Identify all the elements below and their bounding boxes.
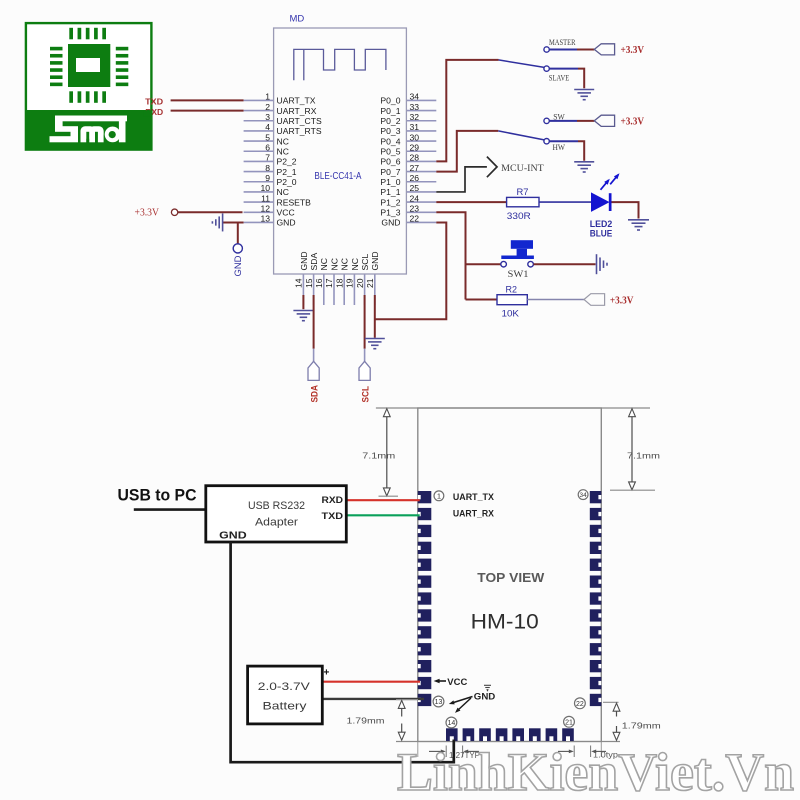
svg-text:+3.3V: +3.3V xyxy=(621,45,645,56)
svg-text:P0_3: P0_3 xyxy=(380,126,400,136)
svg-text:21: 21 xyxy=(565,719,573,726)
svg-text:SCL: SCL xyxy=(360,254,370,271)
svg-text:USB RS232: USB RS232 xyxy=(248,500,305,512)
svg-text:P1_1: P1_1 xyxy=(380,187,400,197)
svg-text:15: 15 xyxy=(304,278,314,288)
svg-text:NC: NC xyxy=(277,146,289,156)
svg-text:SLAVE: SLAVE xyxy=(549,73,570,83)
svg-text:GND: GND xyxy=(219,531,247,542)
svg-text:22: 22 xyxy=(576,701,584,708)
svg-text:12: 12 xyxy=(260,203,270,213)
svg-text:33: 33 xyxy=(410,102,420,112)
svg-text:SW1: SW1 xyxy=(508,269,529,279)
svg-text:RXD: RXD xyxy=(322,495,344,506)
svg-text:3: 3 xyxy=(265,112,270,122)
svg-text:HW: HW xyxy=(553,142,566,152)
svg-text:TXD: TXD xyxy=(322,511,344,522)
svg-text:NC: NC xyxy=(329,258,339,270)
svg-text:Battery: Battery xyxy=(263,701,307,713)
svg-text:HM-10: HM-10 xyxy=(471,610,539,634)
svg-text:LinhKienViet.Vn: LinhKienViet.Vn xyxy=(397,742,794,800)
svg-text:SDA: SDA xyxy=(309,253,319,271)
svg-text:BLE-CC41-A: BLE-CC41-A xyxy=(314,171,361,182)
svg-text:VCC: VCC xyxy=(447,677,467,688)
svg-text:330R: 330R xyxy=(507,211,531,221)
svg-text:P0_2: P0_2 xyxy=(380,116,400,126)
svg-text:SDA: SDA xyxy=(309,385,320,403)
svg-text:SW: SW xyxy=(553,111,565,121)
svg-text:1: 1 xyxy=(437,492,441,501)
svg-text:MCU-INT: MCU-INT xyxy=(501,163,544,174)
svg-text:7.1mm: 7.1mm xyxy=(362,451,395,461)
svg-text:TXD: TXD xyxy=(145,97,163,107)
svg-text:13: 13 xyxy=(435,699,443,706)
svg-text:30: 30 xyxy=(410,132,420,142)
svg-text:20: 20 xyxy=(355,278,365,288)
svg-text:P1_0: P1_0 xyxy=(380,177,400,187)
svg-text:19: 19 xyxy=(345,278,355,288)
svg-text:MASTER: MASTER xyxy=(549,37,576,47)
svg-text:GND: GND xyxy=(370,251,380,270)
svg-text:UART_RX: UART_RX xyxy=(277,106,317,116)
svg-text:P2_1: P2_1 xyxy=(277,167,297,177)
svg-text:27: 27 xyxy=(410,163,420,173)
svg-text:RESETB: RESETB xyxy=(277,197,312,207)
svg-text:34: 34 xyxy=(580,492,588,499)
svg-text:UART_RX: UART_RX xyxy=(453,509,495,520)
svg-text:18: 18 xyxy=(334,278,344,288)
svg-text:23: 23 xyxy=(410,203,420,213)
svg-text:P0_7: P0_7 xyxy=(380,167,400,177)
svg-text:NC: NC xyxy=(277,136,289,146)
svg-text:GND: GND xyxy=(474,692,496,703)
svg-text:UART_CTS: UART_CTS xyxy=(277,116,322,126)
svg-text:P1_3: P1_3 xyxy=(380,207,400,217)
svg-text:26: 26 xyxy=(410,173,420,183)
svg-text:6: 6 xyxy=(265,142,270,152)
svg-text:NC: NC xyxy=(350,258,360,270)
svg-text:P0_1: P0_1 xyxy=(380,106,400,116)
svg-text:13: 13 xyxy=(260,214,270,224)
svg-text:Adapter: Adapter xyxy=(255,517,298,529)
svg-text:UART_RTS: UART_RTS xyxy=(277,126,322,136)
svg-text:P0_0: P0_0 xyxy=(380,96,400,106)
svg-text:17: 17 xyxy=(324,278,334,288)
svg-text:7: 7 xyxy=(265,153,270,163)
svg-text:34: 34 xyxy=(410,92,420,102)
svg-text:1.79mm: 1.79mm xyxy=(622,721,661,731)
svg-text:P2_2: P2_2 xyxy=(277,157,297,167)
svg-text:11: 11 xyxy=(261,193,270,203)
svg-text:5: 5 xyxy=(265,132,270,142)
svg-text:P1_2: P1_2 xyxy=(380,197,400,207)
svg-text:32: 32 xyxy=(410,112,420,122)
svg-text:25: 25 xyxy=(410,183,420,193)
svg-text:28: 28 xyxy=(410,153,420,163)
svg-text:29: 29 xyxy=(410,142,420,152)
svg-text:SCL: SCL xyxy=(360,386,371,403)
svg-text:UART_TX: UART_TX xyxy=(277,96,316,106)
svg-text:14: 14 xyxy=(448,720,456,727)
svg-text:NC: NC xyxy=(340,258,350,270)
svg-text:10K: 10K xyxy=(502,309,520,319)
svg-text:21: 21 xyxy=(365,278,375,288)
svg-text:BLUE: BLUE xyxy=(590,229,613,240)
svg-text:31: 31 xyxy=(410,122,420,132)
svg-text:8: 8 xyxy=(265,163,270,173)
svg-text:P0_4: P0_4 xyxy=(380,136,400,146)
svg-text:7.1mm: 7.1mm xyxy=(627,451,660,461)
svg-text:10: 10 xyxy=(260,183,270,193)
svg-text:UART_TX: UART_TX xyxy=(453,492,495,503)
svg-text:24: 24 xyxy=(410,193,420,203)
svg-text:GND: GND xyxy=(277,218,296,228)
svg-text:R2: R2 xyxy=(506,285,518,295)
svg-text:P2_0: P2_0 xyxy=(277,177,297,187)
svg-text:2: 2 xyxy=(265,102,270,112)
svg-text:VCC: VCC xyxy=(277,207,295,217)
svg-text:14: 14 xyxy=(294,278,304,288)
svg-text:2.0-3.7V: 2.0-3.7V xyxy=(258,681,310,693)
svg-text:P0_6: P0_6 xyxy=(380,157,400,167)
svg-text:+3.3V: +3.3V xyxy=(135,207,160,218)
svg-text:TOP VIEW: TOP VIEW xyxy=(477,570,545,585)
svg-text:USB to PC: USB to PC xyxy=(118,487,197,505)
svg-text:1.79mm: 1.79mm xyxy=(347,716,385,726)
svg-text:1: 1 xyxy=(265,92,270,102)
svg-text:+3.3V: +3.3V xyxy=(610,295,634,306)
svg-text:NC: NC xyxy=(277,187,289,197)
svg-text:+3.3V: +3.3V xyxy=(621,117,645,128)
svg-text:MD: MD xyxy=(290,14,305,25)
svg-text:GND: GND xyxy=(233,255,243,277)
svg-text:NC: NC xyxy=(319,258,329,270)
svg-text:9: 9 xyxy=(265,173,270,183)
svg-text:GND: GND xyxy=(299,251,309,270)
svg-text:22: 22 xyxy=(410,214,420,224)
svg-text:16: 16 xyxy=(314,278,324,288)
svg-text:GND: GND xyxy=(381,218,400,228)
svg-text:4: 4 xyxy=(265,122,270,132)
svg-text:+: + xyxy=(324,668,330,679)
svg-text:R7: R7 xyxy=(517,187,529,197)
svg-text:P0_5: P0_5 xyxy=(380,146,400,156)
